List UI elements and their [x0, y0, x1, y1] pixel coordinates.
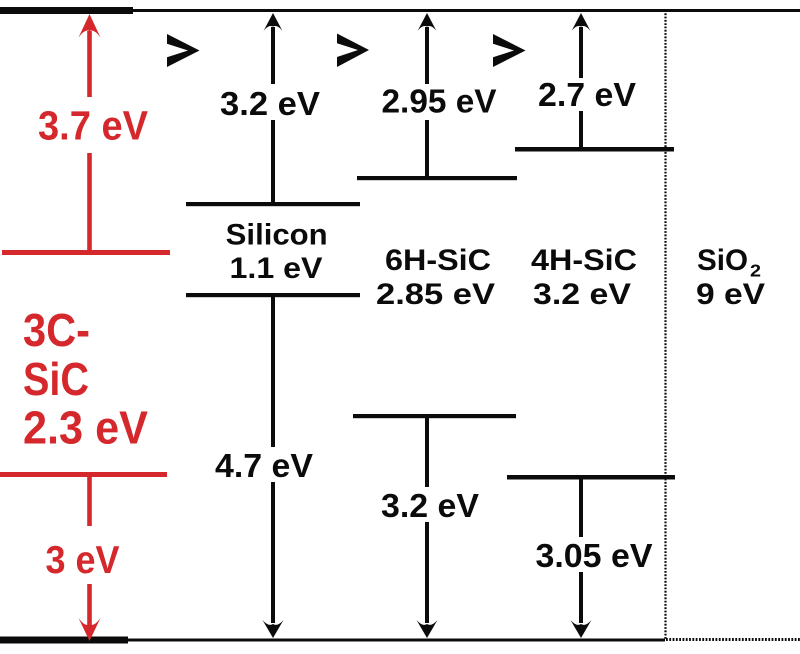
svg-text:4.7 eV: 4.7 eV — [215, 447, 313, 484]
Silicon conduction band line — [186, 202, 360, 206]
4H-SiC valence band line — [507, 475, 675, 480]
bottom dotted segment under SiO2 — [666, 638, 800, 641]
svg-text:4H-SiC: 4H-SiC — [531, 244, 637, 277]
greater-than sign 3 — [493, 34, 526, 67]
svg-text:6H-SiC: 6H-SiC — [385, 244, 491, 277]
svg-text:3C-: 3C- — [23, 304, 90, 356]
red arrow up 3.7 eV — [79, 14, 101, 250]
6H-SiC valence band line — [353, 414, 516, 418]
greater-than sign 2 — [337, 34, 369, 68]
6H-SiC conduction band line — [357, 176, 517, 180]
vertical dotted SiO2 boundary — [664, 10, 666, 640]
4H down arrow 3.05 eV — [571, 479, 592, 638]
silicon down arrow 4.7 eV — [263, 297, 284, 638]
silicon up arrow 3.2 eV — [264, 13, 283, 202]
svg-text:3.2 eV: 3.2 eV — [533, 278, 631, 311]
svg-text:2.3 eV: 2.3 eV — [23, 402, 148, 454]
svg-text:1.1 eV: 1.1 eV — [230, 252, 323, 285]
6H down arrow 3.2 eV — [417, 418, 438, 638]
3C-SiC conduction band line (red) — [2, 250, 170, 255]
top vacuum level line (thick left segment) — [0, 7, 133, 14]
svg-text:3.2 eV: 3.2 eV — [220, 85, 320, 122]
4H up arrow 2.7 eV — [572, 13, 591, 148]
svg-text:2.85 eV: 2.85 eV — [376, 278, 495, 311]
bottom level line (thick left segment) — [0, 637, 128, 644]
4H-SiC conduction band line — [515, 147, 674, 152]
svg-text:2.7 eV: 2.7 eV — [538, 76, 636, 113]
top vacuum level line (thin full width) — [0, 9, 800, 12]
svg-text:9 eV: 9 eV — [696, 278, 765, 311]
3C-SiC valence band line (red) — [0, 472, 167, 477]
svg-text:3.05 eV: 3.05 eV — [536, 537, 653, 574]
6H up arrow 2.95 eV — [418, 13, 437, 176]
red arrow down 3 eV — [79, 477, 101, 641]
svg-text:SiC: SiC — [23, 353, 89, 405]
svg-text:Silicon: Silicon — [226, 219, 328, 252]
svg-text:SiO: SiO — [697, 244, 748, 277]
svg-text:2.95 eV: 2.95 eV — [382, 83, 497, 120]
svg-text:3 eV: 3 eV — [46, 539, 120, 582]
Silicon valence band line — [186, 293, 360, 297]
svg-text:3.2 eV: 3.2 eV — [381, 487, 479, 524]
bottom level line (thin segment) — [0, 639, 665, 642]
greater-than sign 1 — [167, 34, 200, 67]
svg-text:3.7 eV: 3.7 eV — [38, 103, 149, 149]
